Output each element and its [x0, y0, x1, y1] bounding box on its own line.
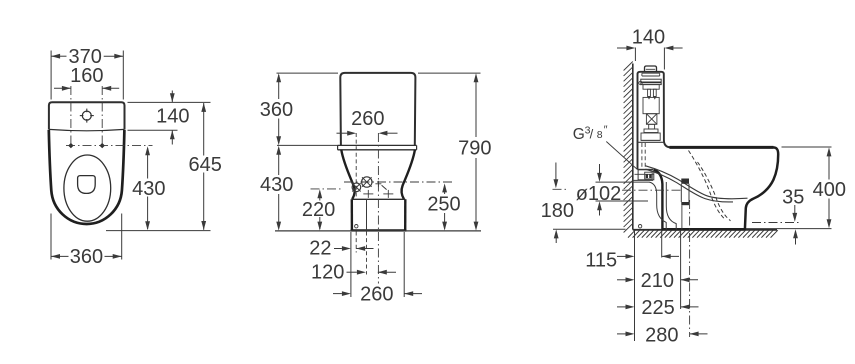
hidden trap curve (dashed) 1 [689, 151, 726, 220]
fixing hole mark right (diamond) [100, 143, 105, 148]
wall line [632, 64, 634, 230]
hidden line x366 below floor [366, 232, 368, 275]
svg-text:140: 140 [156, 105, 189, 127]
svg-text:160: 160 [70, 65, 103, 87]
hidden flush pipe [642, 143, 645, 169]
fixing hole mark left (diamond) [68, 143, 73, 148]
cistern tank (front view) [340, 73, 415, 145]
outlet pipe top edge [596, 181, 650, 183]
fixing circle 1 [352, 183, 361, 192]
dim 360 (front view) [260, 73, 293, 145]
outlet pipe bottom edge [596, 200, 649, 202]
dim 140 top extension lines [635, 48, 664, 70]
floor fixing bolt [681, 179, 689, 230]
svg-text:360: 360 [70, 246, 103, 268]
center line vertical front view [377, 133, 379, 284]
dim 400 [813, 147, 846, 228]
center mark B [383, 190, 393, 198]
svg-text:250: 250 [427, 194, 460, 216]
centerline horizontal through holes [66, 145, 153, 147]
svg-text:210: 210 [641, 270, 674, 292]
flush button (side view) [645, 66, 657, 72]
svg-text:115: 115 [585, 250, 617, 272]
tank lid lip [338, 145, 417, 149]
dash-dot line y189 (220 ref) [311, 188, 342, 190]
bowl top line (side view) [670, 146, 774, 149]
dim 140 (tank depth) [156, 91, 189, 145]
hidden line left hole [355, 133, 357, 199]
svg-text:ø102: ø102 [576, 183, 622, 205]
extension line below floor x351 [350, 232, 352, 297]
dim 250 [427, 183, 460, 230]
svg-text:35: 35 [782, 187, 804, 209]
svg-text:645: 645 [189, 154, 222, 176]
dim 115 [585, 250, 679, 272]
label G3/8 [573, 124, 608, 143]
extension line tank top left [277, 72, 339, 74]
svg-text:180: 180 [541, 200, 574, 222]
hidden trap curve (dashed) 2 [698, 162, 731, 221]
dim 225 [617, 297, 699, 319]
water inlet fitting G3/8 [633, 169, 654, 180]
dim 220 [302, 189, 335, 230]
bottom extension wall [634, 231, 636, 342]
floor line (front view) [275, 230, 481, 232]
svg-text:G: G [573, 126, 585, 143]
cistern tank (top view) outline [49, 102, 125, 131]
extension line below floor x404 [403, 232, 405, 297]
trap inner curve [649, 182, 666, 230]
center line vertical outlet [689, 200, 691, 337]
tank (side view) [638, 72, 672, 170]
dim 370 extension lines [51, 51, 123, 100]
bowl back edge (thick) [654, 170, 663, 230]
fixing circle 2 [362, 177, 372, 187]
svg-text:″: ″ [604, 124, 608, 136]
dim 430 (front view) [260, 146, 293, 231]
bowl front edge (side view) [745, 147, 778, 229]
dim 360 extension lines [51, 214, 122, 260]
drain circle mark [355, 225, 358, 228]
dim 22 [309, 238, 373, 260]
dim 180 [541, 163, 574, 244]
floor extension right [746, 228, 832, 230]
bottom extension foot [661, 231, 663, 258]
bowl outline (top view) [49, 130, 125, 224]
leader line G3/8 [606, 142, 637, 170]
svg-text:400: 400 [813, 179, 846, 201]
svg-text:120: 120 [311, 262, 344, 284]
extension line bowl bottom [106, 230, 211, 232]
wall hatching [624, 62, 633, 233]
center line horizontal (outlet) [622, 189, 681, 191]
dim 790 [458, 73, 491, 230]
center line horizontal left segment [553, 188, 570, 190]
floor hatching [628, 230, 778, 237]
dim 280 [617, 324, 708, 346]
tank bottom line [638, 140, 664, 142]
svg-text:430: 430 [260, 174, 293, 196]
dim 645 [189, 103, 222, 230]
flush mechanism [639, 73, 661, 140]
bowl left side (front view) [341, 150, 354, 200]
small circle at foot [638, 225, 641, 228]
centerline vertical left hole [70, 86, 72, 147]
svg-text:140: 140 [632, 27, 665, 49]
centerline vertical right hole [101, 86, 103, 147]
small diagonal mark [382, 185, 387, 189]
dim 35 [782, 187, 804, 245]
seat opening ellipse [64, 155, 111, 221]
dim 210 [617, 270, 698, 292]
dim 430 (left view) [132, 146, 165, 230]
dim 400 extension line [782, 146, 832, 148]
svg-text:220: 220 [302, 199, 335, 221]
hidden line below floor x356 [355, 232, 357, 253]
foot back inner line [666, 182, 676, 230]
dim 160 [54, 65, 119, 91]
bowl interior curve lower [646, 169, 734, 202]
floor extension left [553, 228, 626, 230]
svg-text:280: 280 [645, 324, 678, 346]
center line near floor (35 ref) [752, 222, 801, 224]
dash-dot line y182 (250 ref) [344, 181, 452, 183]
bottom extension outlet [680, 231, 682, 310]
pedestal (front view) [351, 199, 407, 230]
dim 140 top (side view) [617, 27, 683, 51]
extension line lip left [277, 144, 338, 146]
svg-text:22: 22 [309, 238, 331, 260]
svg-text:8: 8 [597, 129, 603, 141]
svg-text:360: 360 [260, 99, 293, 121]
svg-text:790: 790 [458, 138, 491, 160]
center mark A [363, 190, 373, 198]
svg-text:/: / [590, 127, 594, 142]
svg-text:260: 260 [360, 284, 393, 306]
dim 260 bottom [333, 284, 422, 306]
dim o102 [576, 164, 622, 216]
svg-text:225: 225 [641, 297, 674, 319]
dim 120 [311, 262, 396, 284]
water spot shape [78, 176, 96, 194]
plus mark on center line [375, 181, 381, 187]
extension line tank top right [128, 101, 211, 103]
extension line tank top right (front) [418, 72, 481, 74]
inner pedestal line [366, 199, 368, 230]
dim 360 (left view) [51, 246, 122, 268]
foot bottom thick line [662, 228, 746, 231]
floor line main [633, 229, 777, 231]
dim 370 [51, 46, 123, 68]
extension line tank bottom right [128, 129, 178, 131]
svg-text:430: 430 [132, 178, 165, 200]
dim 260 top [337, 108, 398, 136]
bowl right side (front view) [402, 150, 415, 200]
bowl interior curve upper [646, 166, 748, 199]
svg-text:260: 260 [351, 108, 384, 130]
push button circle on tank [80, 109, 94, 123]
